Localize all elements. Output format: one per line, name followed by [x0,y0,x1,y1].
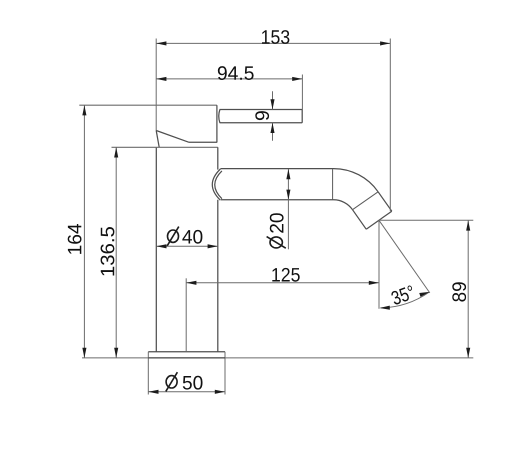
dimension diameter-20 top arrow [286,169,290,179]
dimension 89 text [452,282,466,301]
cap bottom edge [189,141,217,143]
dimension 89 line [467,220,469,358]
dimension 164 top arrow [82,105,86,115]
dimension diameter-20 symbol [267,237,286,249]
dimension 89 top arrow [466,220,470,230]
dimension 136.5 text [101,227,115,276]
dimension diameter-40 right arrow [208,244,218,248]
dimension 164 line [83,105,85,358]
outlet horizontal extension to 89 dimension [379,219,473,221]
spout end face [366,211,392,229]
dimension 153 right arrow [380,41,390,45]
spout angled seam [353,192,379,210]
dimension 136.5 top arrow [114,147,118,157]
dimension 125 left extension line [185,278,187,352]
spout coupling outer arc [212,169,220,200]
dimension 153 right extension line [389,39,391,212]
cap lower-left slant [156,131,159,148]
handle bar top [220,109,303,111]
dimension 35-degree text [390,285,415,306]
dimension diameter-50 left arrow [148,390,158,394]
dimension 9 upper arrow [270,99,274,109]
body right edge upper [217,147,219,169]
dimension 164 bottom arrow [82,348,86,358]
dimension diameter-40 text [182,230,202,244]
body top edge with 136.5 extension [112,146,218,148]
handle bar right end [301,110,303,123]
base bottom edge [148,357,225,359]
dimension 35-degree lower arrow [380,306,390,310]
dimension diameter-20 line [287,169,289,249]
cap right edge [216,105,218,142]
dimension diameter-40 line [156,245,218,247]
dimension diameter-40 left arrow [156,244,166,248]
dimension diameter-20 text [270,213,284,233]
dimension 153 line [156,42,390,44]
dimension 136.5 line [115,147,117,358]
dimension 9 text [255,111,269,120]
dimension diameter-40 symbol [168,230,179,242]
spout inner bend arc [334,200,353,210]
spout end outer side [378,192,392,211]
dimension 125 line [186,282,379,284]
dimension 94.5 right extension line [301,75,303,110]
outlet vertical reference ray [378,220,380,308]
dimension 9 lower arrow [270,123,274,133]
dimension 153 text [262,30,289,44]
dimension 35-degree upper arrow [419,292,429,297]
dimension 125 left arrow [186,281,196,285]
spout coupling inner arc [215,171,222,199]
ground line [82,357,473,359]
spout end inner side [353,210,367,230]
spout outer bend arc [334,169,379,192]
dimension 35-degree arc [381,292,430,308]
outlet 35-degree ray [379,220,430,293]
dimension 9 lower line [272,123,274,141]
dimension 94.5 right arrow [292,77,302,81]
spout top edge [220,168,333,170]
spout bottom edge [221,199,334,201]
base top edge [148,351,225,353]
dimension diameter-50 symbol [166,376,177,388]
dimension diameter-50 text [183,376,203,390]
dimension 153 left arrow [156,41,166,45]
cap bottom slant [156,131,189,143]
dimension 136.5 bottom arrow [114,348,118,358]
dimension 125 text [272,268,299,282]
dimension 94.5 line [156,78,302,80]
body left edge [155,147,157,351]
dimension 94.5 text [218,66,254,80]
spout vertical seam [332,169,334,200]
dimension diameter-20 bottom arrow [286,190,290,200]
dimension diameter-50 line [148,391,225,393]
handle bar bottom [220,122,303,124]
dimension 89 bottom arrow [466,348,470,358]
dimension diameter-50 right arrow [215,390,225,394]
base left edge with diameter-50 extension [147,352,149,395]
dimension 94.5 left arrow [156,77,166,81]
dimension 164 text [68,224,82,254]
handle bar left end arc [219,110,220,123]
faucet cap top edge with 164 extension [79,104,217,106]
base right edge with diameter-50 extension [224,352,226,395]
dimension 9 upper line [272,91,274,109]
body right edge lower [217,200,219,352]
left extension line for 153 and 94.5 plus cap left edge [155,39,157,131]
dimension 125 right arrow [369,281,379,285]
